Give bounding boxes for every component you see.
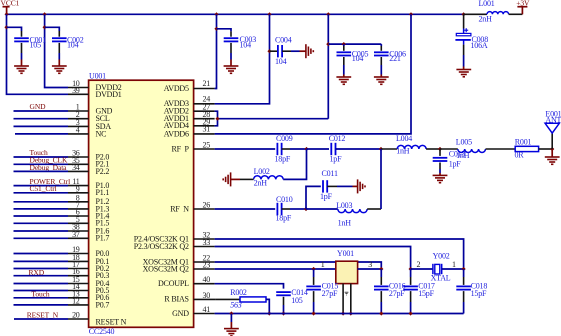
wire AVDD6 riser	[215, 14, 411, 134]
crystal Y001	[336, 249, 358, 283]
capacitor C010	[276, 195, 293, 222]
wire pin 12	[14, 304, 69, 306]
capacitor C005	[337, 44, 369, 74]
capacitor C013	[433, 149, 466, 173]
svg-text:C010: C010	[276, 195, 293, 204]
junction	[281, 311, 285, 315]
svg-text:L002: L002	[254, 167, 270, 176]
U001 left pin stubs	[68, 88, 89, 320]
wire junction to C012	[307, 148, 330, 150]
crystal Y002 XTAL	[431, 251, 451, 282]
svg-text:33: 33	[203, 238, 211, 247]
wire Y002 pin 2	[411, 268, 433, 270]
svg-text:104: 104	[275, 57, 287, 66]
wire vertical to pin 39	[7, 14, 69, 94]
junction	[462, 267, 466, 271]
wire C010 to junction	[290, 208, 306, 210]
svg-text:27pF: 27pF	[389, 289, 405, 298]
svg-text:20: 20	[72, 311, 80, 320]
svg-text:30: 30	[203, 291, 211, 300]
junction	[5, 12, 9, 16]
junction	[342, 42, 346, 46]
U001 left pin numbers	[72, 79, 80, 320]
wire RF P from pin 25	[215, 148, 276, 150]
svg-text:P2.3/OSC32K Q2: P2.3/OSC32K Q2	[134, 242, 189, 251]
svg-text:1: 1	[321, 260, 325, 269]
inductor L004	[381, 134, 440, 156]
junction	[379, 267, 383, 271]
junction	[312, 267, 316, 271]
wire GND bottom rail	[215, 313, 464, 315]
wire pin 35	[14, 163, 69, 165]
svg-text:105: 105	[291, 296, 303, 305]
junction	[312, 311, 316, 315]
svg-text:Debug_Data: Debug_Data	[30, 163, 68, 172]
capacitor C011	[320, 169, 353, 201]
junction	[409, 267, 413, 271]
svg-text:106A: 106A	[471, 41, 488, 50]
wire C009 to junction	[290, 148, 307, 150]
wire pin 4	[15, 133, 68, 135]
wire pin 33 to XTAL left riser	[215, 247, 411, 270]
ground	[456, 67, 471, 77]
wire DCOUPL to C014	[215, 284, 284, 289]
capacitor C008 polarized	[455, 14, 488, 66]
wire pin 36	[14, 156, 69, 158]
wire pin 38	[14, 230, 69, 232]
U001 left pin names	[96, 83, 127, 326]
wire vertical to pin 10	[45, 14, 68, 87]
svg-text:NC: NC	[96, 129, 107, 138]
wire pin 37	[14, 237, 69, 239]
wire RF N from pin 26	[215, 208, 276, 210]
svg-text:4: 4	[76, 125, 80, 134]
ground sideways right	[353, 179, 366, 193]
svg-text:P1.1: P1.1	[96, 188, 110, 197]
junction	[43, 12, 47, 16]
inductor L003	[306, 201, 381, 228]
svg-text:26: 26	[203, 201, 211, 210]
svg-text:ANT1: ANT1	[545, 115, 561, 124]
junction	[409, 311, 413, 315]
U001 right pin names	[134, 84, 190, 318]
svg-text:18pF: 18pF	[276, 214, 292, 223]
capacitor C001	[7, 27, 47, 59]
junction	[304, 147, 308, 151]
junction	[326, 12, 330, 16]
IC U001 CC2540 body	[89, 71, 194, 336]
svg-text:105: 105	[30, 40, 42, 49]
wire VCC1 top rail	[7, 13, 464, 15]
svg-text:1pF: 1pF	[320, 192, 333, 201]
svg-text:R002: R002	[230, 288, 247, 297]
svg-text:RF N: RF N	[170, 204, 189, 213]
wire pin 19	[14, 253, 69, 255]
svg-text:C011: C011	[322, 169, 338, 178]
svg-text:Y001: Y001	[337, 249, 354, 258]
junction	[215, 117, 219, 121]
wire pin 18	[14, 260, 69, 262]
wire pin 24 riser	[215, 14, 270, 104]
svg-text:CC2540: CC2540	[89, 327, 115, 336]
ground	[336, 75, 351, 85]
wire pin 21 riser	[215, 14, 217, 88]
svg-text:21: 21	[203, 79, 211, 88]
svg-text:AVDD6: AVDD6	[164, 129, 189, 138]
junction	[304, 207, 308, 211]
wire pin 34	[14, 170, 69, 172]
wire pin 22 to Y001 top net	[215, 262, 382, 269]
U001 right pin stubs	[194, 89, 216, 314]
junction	[341, 311, 345, 315]
capacitor C009	[275, 134, 293, 164]
wire pin 32 to XTAL right riser	[215, 239, 464, 269]
junction	[267, 49, 271, 53]
svg-text:C004: C004	[275, 36, 292, 45]
wire pin 15	[14, 283, 69, 285]
capacitor C012	[329, 134, 346, 164]
wire pin 16	[14, 275, 69, 277]
svg-text:39: 39	[72, 86, 80, 95]
wire AVDD1 AVDD2 AVDD4 tie	[215, 111, 329, 126]
svg-text:27pF: 27pF	[322, 289, 338, 298]
svg-text:18pF: 18pF	[275, 154, 291, 163]
wire pin 13	[14, 297, 69, 299]
junction	[4, 25, 8, 29]
svg-text:C012: C012	[329, 134, 346, 143]
ground sideways right	[300, 44, 314, 58]
svg-text:12: 12	[72, 296, 80, 305]
wire pin 5	[14, 222, 69, 224]
wire Y002 pin 1	[442, 268, 464, 270]
junction	[409, 12, 413, 16]
svg-text:GND: GND	[172, 309, 189, 318]
svg-text:34: 34	[72, 163, 80, 172]
svg-text:R BIAS: R BIAS	[164, 295, 188, 304]
svg-text:104: 104	[240, 40, 252, 49]
svg-text:1nH: 1nH	[338, 218, 352, 227]
svg-text:1pF: 1pF	[330, 154, 343, 163]
svg-text:15pF: 15pF	[418, 289, 434, 298]
junction	[214, 12, 218, 16]
wire pin 2	[14, 118, 69, 120]
wire pin 14	[14, 290, 69, 292]
junction	[267, 311, 271, 315]
capacitor C015	[306, 269, 338, 314]
ground sideways left	[223, 172, 240, 186]
capacitor C002	[45, 27, 84, 59]
svg-text:37: 37	[72, 230, 80, 239]
svg-text:C009: C009	[276, 134, 293, 143]
junction	[438, 147, 442, 151]
svg-text:1pF: 1pF	[449, 159, 462, 168]
svg-text:L001: L001	[479, 0, 495, 8]
wire Y001 leg pin 2	[342, 284, 344, 314]
svg-text:221: 221	[389, 54, 401, 63]
U001 right pin numbers	[203, 79, 211, 314]
svg-text:104: 104	[67, 40, 79, 49]
svg-text:1: 1	[452, 260, 456, 269]
svg-text:AVDD5: AVDD5	[164, 84, 189, 93]
svg-text:Y002: Y002	[433, 251, 450, 260]
resistor R002	[215, 288, 269, 314]
svg-text:31: 31	[203, 124, 211, 133]
junction	[379, 311, 383, 315]
wire pin 1	[14, 110, 69, 112]
ground	[433, 173, 448, 183]
wire pin 17	[14, 268, 69, 270]
svg-text:1nH: 1nH	[396, 147, 410, 156]
svg-text:DVDD1: DVDD1	[96, 90, 122, 99]
antenna E001 ANT1	[545, 109, 561, 149]
capacitor C016	[374, 269, 406, 314]
capacitor C017	[403, 269, 435, 314]
svg-text:2nH: 2nH	[479, 14, 493, 23]
wire L002 branch riser	[283, 149, 306, 179]
svg-text:R001: R001	[515, 137, 532, 146]
svg-text:2: 2	[417, 260, 421, 269]
svg-text:41: 41	[203, 305, 211, 314]
svg-text:L005: L005	[456, 137, 472, 146]
junction	[550, 147, 554, 151]
wire C011 branch riser	[306, 186, 321, 209]
svg-text:40: 40	[203, 275, 211, 284]
svg-text:C51_Ctrl: C51_Ctrl	[30, 184, 57, 193]
ground	[374, 75, 389, 85]
wire pin 23 to Y001	[215, 268, 336, 270]
junction	[349, 311, 353, 315]
svg-text:RESET N: RESET N	[96, 317, 127, 326]
capacitor C014	[276, 288, 308, 313]
capacitor C018	[456, 269, 487, 314]
wire Y001 pin 3	[358, 268, 382, 270]
wire pin 9	[14, 192, 69, 194]
svg-text:DCOUPL: DCOUPL	[158, 279, 189, 288]
inductor L001	[464, 0, 523, 23]
svg-text:563: 563	[230, 300, 242, 309]
svg-text:9: 9	[76, 184, 80, 193]
wire Y001 leg pin 4	[350, 284, 352, 314]
junction	[229, 311, 233, 315]
resistor R001	[515, 137, 553, 159]
power flag +3V	[516, 0, 530, 14]
svg-text:3: 3	[368, 260, 372, 269]
capacitor C003	[217, 29, 257, 60]
wire pin 20	[14, 318, 68, 320]
wire AVDD rail riser	[327, 14, 329, 118]
junction	[326, 42, 330, 46]
svg-text:U001: U001	[89, 71, 106, 80]
svg-text:L004: L004	[396, 134, 412, 143]
wire pin 3	[14, 125, 69, 127]
ground tiny Y001 case	[345, 292, 349, 295]
svg-text:XOSC32M Q2: XOSC32M Q2	[143, 264, 189, 273]
wire pin 6	[14, 215, 69, 217]
svg-text:P2.2: P2.2	[96, 167, 110, 176]
svg-text:0R: 0R	[515, 151, 525, 160]
wire C012 to junction	[336, 148, 382, 150]
svg-text:P1.7: P1.7	[96, 234, 110, 243]
svg-text:GND: GND	[30, 102, 47, 111]
svg-text:L003: L003	[336, 201, 352, 210]
svg-text:23: 23	[203, 261, 211, 270]
svg-text:2nH: 2nH	[254, 178, 268, 187]
wire RF N riser to RF P	[380, 149, 382, 209]
inductor L005	[440, 137, 515, 160]
svg-text:104: 104	[352, 54, 364, 63]
svg-text:15pF: 15pF	[471, 289, 487, 298]
junction	[43, 25, 47, 29]
inductor L002	[240, 167, 283, 187]
wire pin 11	[14, 185, 69, 187]
svg-text:25: 25	[203, 141, 211, 150]
capacitor C006	[374, 44, 406, 74]
ground	[14, 60, 29, 74]
power flag VCC1	[1, 0, 20, 14]
junction	[214, 27, 218, 31]
svg-text:1nH: 1nH	[456, 151, 470, 160]
wire pin 7	[14, 208, 69, 210]
junction	[379, 147, 383, 151]
wire C005 C006 header	[328, 43, 381, 45]
junction	[267, 12, 271, 16]
junction	[462, 12, 466, 16]
svg-text:P0.7: P0.7	[96, 300, 110, 309]
wire pin 8	[14, 201, 69, 203]
ground	[52, 60, 67, 74]
ground	[224, 314, 239, 336]
capacitor C004	[270, 36, 300, 66]
ground	[224, 60, 239, 74]
ground	[545, 149, 560, 164]
svg-text:RF P: RF P	[172, 144, 190, 153]
svg-text:RESET_N: RESET_N	[27, 310, 59, 319]
